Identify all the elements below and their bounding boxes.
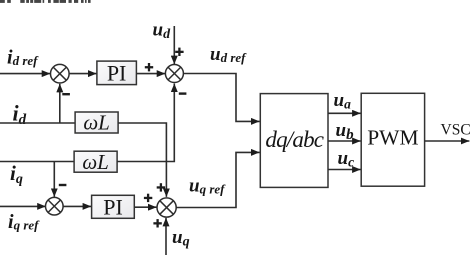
- gain block wL2: [74, 150, 117, 174]
- minus sign at S3 top input: [59, 184, 67, 186]
- wire u_c: [328, 169, 361, 171]
- svg-text:uc: uc: [338, 148, 355, 170]
- svg-text:id ref: id ref: [7, 47, 39, 69]
- plus sign at S4 top input: [157, 183, 165, 191]
- PWM block: [361, 93, 424, 186]
- transform block dq/abc: [260, 94, 328, 188]
- wire S4 to dq/abc (u_q_ref): [176, 152, 259, 207]
- svg-text:ua: ua: [334, 90, 352, 112]
- svg-text:ub: ub: [336, 120, 355, 143]
- summing junction S3: [46, 197, 64, 215]
- wire i_d feedback branch to S1: [59, 84, 61, 123]
- cropped caption text fragments (top edge): [0, 0, 91, 3]
- svg-text:iq ref: iq ref: [8, 211, 40, 233]
- minus sign at S2 bottom input: [179, 92, 187, 94]
- wire wL2 output to S2 bottom: [117, 84, 174, 162]
- gain block wL1: [75, 111, 118, 135]
- wire i_q input: [0, 161, 74, 163]
- wire u_q feedforward into S4 bottom: [165, 218, 167, 255]
- wire S2 to dq/abc (u_d_ref): [183, 74, 259, 122]
- wire u_d feedforward into S2 top: [173, 26, 175, 64]
- svg-text:PWM: PWM: [367, 125, 418, 149]
- wire wL1 output to S4 top: [118, 123, 166, 197]
- wire PI1 to S2: [136, 73, 165, 75]
- wire i_d_ref input: [0, 73, 50, 75]
- PI controller PI1: [97, 61, 136, 86]
- svg-text:VSC: VSC: [441, 121, 471, 138]
- svg-text:dq/abc: dq/abc: [265, 127, 323, 152]
- minus sign at S1 lower input: [62, 93, 70, 95]
- wire i_q_ref input: [0, 205, 46, 207]
- svg-text:PI: PI: [107, 61, 127, 86]
- wire i_q branch down to S3: [53, 162, 55, 197]
- summing junction S1: [51, 64, 70, 83]
- wire u_b: [328, 140, 361, 142]
- wire i_d input: [0, 122, 75, 124]
- wire PI2 to S4: [134, 206, 156, 208]
- wire PWM output to VSC: [425, 140, 470, 142]
- wire S3 to PI2: [63, 205, 91, 207]
- svg-text:uq ref: uq ref: [189, 176, 226, 197]
- plus sign at S4 bottom input: [153, 219, 161, 227]
- svg-text:iq: iq: [10, 161, 23, 187]
- label i_d_ref: [7, 47, 39, 69]
- svg-text:uq: uq: [172, 227, 190, 250]
- summing junction S2: [165, 65, 183, 83]
- svg-text:ωL: ωL: [83, 111, 110, 135]
- plus sign at S4 left input: [144, 194, 152, 202]
- svg-text:PI: PI: [103, 195, 123, 220]
- svg-text:ud ref: ud ref: [210, 44, 247, 65]
- wire u_a: [328, 112, 361, 114]
- wire S1 to PI1: [69, 73, 97, 75]
- PI controller PI2: [92, 195, 135, 220]
- plus sign at S2 left input: [145, 63, 153, 71]
- svg-text:ωL: ωL: [82, 150, 109, 174]
- summing junction S4: [157, 198, 176, 217]
- svg-text:ud: ud: [153, 20, 172, 42]
- plus sign at S2 top input: [175, 48, 183, 56]
